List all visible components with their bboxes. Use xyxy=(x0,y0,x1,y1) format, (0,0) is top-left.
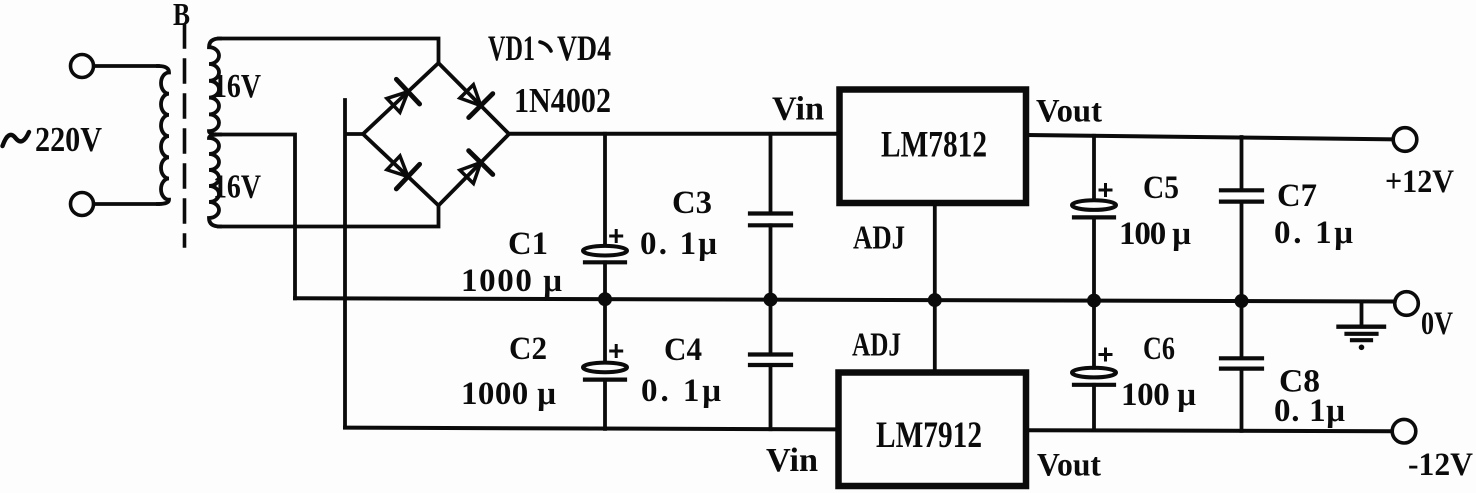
svg-text:16V: 16V xyxy=(213,169,261,206)
svg-text:16V: 16V xyxy=(213,68,261,105)
svg-text:LM7812: LM7812 xyxy=(881,125,987,166)
plus sign C2 xyxy=(611,346,622,357)
svg-text:B: B xyxy=(173,0,190,32)
svg-text:C5: C5 xyxy=(1143,170,1179,206)
label ~220V xyxy=(3,132,30,146)
svg-text:C2: C2 xyxy=(509,331,547,367)
svg-text:100 μ: 100 μ xyxy=(1121,377,1196,413)
terminal top-left input xyxy=(71,55,94,78)
wire secondary top to bridge xyxy=(219,39,439,64)
junction dot ADJ on 0V rail xyxy=(928,293,942,307)
middle 0V rail xyxy=(295,298,1395,301)
svg-text:C4: C4 xyxy=(664,332,702,368)
svg-text:Vout: Vout xyxy=(1037,448,1101,484)
svg-text:C3: C3 xyxy=(672,185,712,221)
regulator U2 LM7912 box xyxy=(839,373,1027,487)
svg-text:Vin: Vin xyxy=(772,91,824,128)
terminal 0V xyxy=(1395,292,1419,316)
capacitor C1 column xyxy=(603,134,607,246)
wire bridge negative vertical xyxy=(345,100,363,428)
terminal +12V xyxy=(1393,128,1417,152)
plus sign C1 xyxy=(611,231,622,242)
svg-text:-12V: -12V xyxy=(1408,447,1473,483)
capacitor C7 column xyxy=(1240,137,1244,190)
svg-text:220V: 220V xyxy=(35,120,102,159)
transformer core (dashed) xyxy=(183,25,187,246)
svg-text:+12V: +12V xyxy=(1385,164,1454,200)
capacitor C6 column xyxy=(1092,301,1096,368)
svg-text:ADJ: ADJ xyxy=(853,220,905,257)
terminal -12V xyxy=(1392,419,1416,443)
bottom rail right of LM7912 xyxy=(1028,430,1392,431)
top positive rail xyxy=(509,132,837,136)
svg-text:1N4002: 1N4002 xyxy=(514,81,611,120)
capacitor C4 column xyxy=(769,301,773,355)
svg-text:1000 μ: 1000 μ xyxy=(461,263,562,299)
capacitor C2 column xyxy=(603,300,607,363)
svg-text:LM7912: LM7912 xyxy=(876,415,982,456)
plus sign C5 xyxy=(1100,185,1111,196)
svg-text:0. 1μ: 0. 1μ xyxy=(640,226,717,262)
svg-text:ADJ: ADJ xyxy=(852,327,901,364)
wire secondary bottom to bridge xyxy=(219,206,439,227)
svg-text:C6: C6 xyxy=(1143,331,1175,367)
transformer T1 secondary winding lower 16V xyxy=(209,135,220,227)
capacitor C8 column xyxy=(1240,302,1244,358)
wire secondary mid-tap xyxy=(218,135,295,299)
svg-text:1000 μ: 1000 μ xyxy=(461,376,556,412)
diode VD2 top-right xyxy=(455,79,493,117)
diode VD3 bottom-left xyxy=(382,150,420,188)
capacitor C3 column xyxy=(769,134,773,213)
capacitor C5 column xyxy=(1092,136,1096,200)
junction dot C1/C2 on 0V rail xyxy=(598,292,612,306)
svg-text:VD4: VD4 xyxy=(557,28,611,68)
diode VD4 bottom-right xyxy=(455,151,493,189)
junction dot C5/C6 on 0V rail xyxy=(1087,294,1101,308)
regulator U1 LM7812 box xyxy=(840,90,1027,204)
svg-text:100 μ: 100 μ xyxy=(1119,216,1191,252)
bottom negative rail xyxy=(345,428,836,430)
ground symbol xyxy=(1360,302,1364,326)
top rail right of LM7812 xyxy=(1028,135,1393,139)
svg-text:C1: C1 xyxy=(508,226,548,262)
svg-text:VD1: VD1 xyxy=(488,28,535,68)
ADJ wire LM7812 to rail to LM7912 xyxy=(933,203,937,370)
wire top input to primary xyxy=(94,64,158,68)
svg-text:C7: C7 xyxy=(1277,178,1317,214)
bridge diamond edges xyxy=(363,63,509,206)
junction dot C7/C8 on 0V rail xyxy=(1235,294,1249,308)
plus sign C6 xyxy=(1100,349,1111,360)
svg-text:Vout: Vout xyxy=(1036,94,1102,130)
transformer T1 secondary winding upper 16V xyxy=(209,39,220,135)
transformer T1 primary winding xyxy=(158,66,169,204)
junction dot C3/C4 on 0V rail xyxy=(764,293,778,307)
svg-text:0V: 0V xyxy=(1421,306,1453,342)
wire bottom input to primary xyxy=(94,202,158,206)
svg-text:0. 1μ: 0. 1μ xyxy=(1274,393,1345,429)
diode VD1 top-left xyxy=(382,79,420,117)
terminal bottom-left input xyxy=(71,193,94,216)
svg-text:Vin: Vin xyxy=(766,442,818,479)
